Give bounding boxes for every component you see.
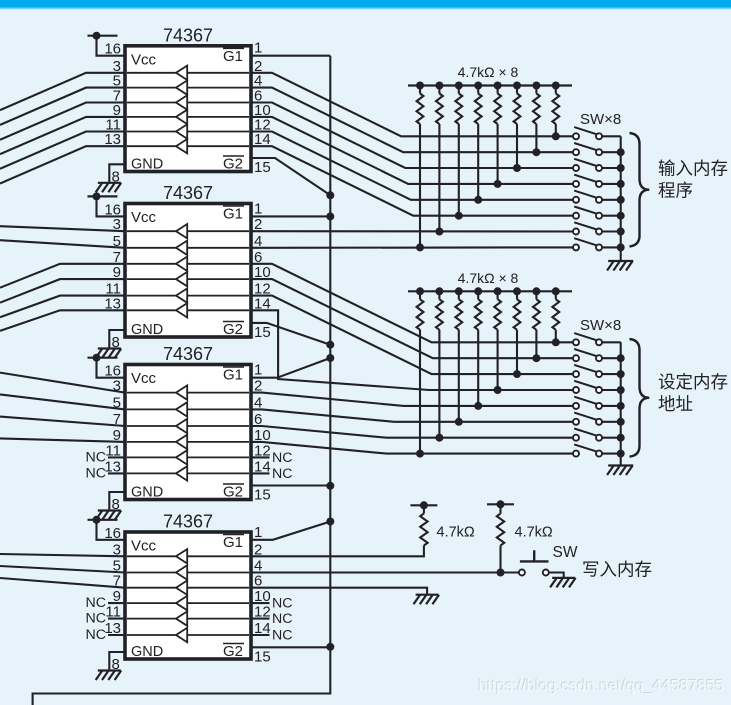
NC stub pin 14 [251,466,293,482]
buffer U2 channel 6 [127,303,249,317]
switch RN2 SW3 [573,365,602,377]
buffer U3 channel 5 [127,450,249,464]
wire resistor RN1-3 to switch row 6 [458,124,460,216]
wire switch 3 to ground bus [602,167,621,169]
junction node row 3 [513,164,521,172]
svg-text:1: 1 [254,40,262,57]
switch RN2 SW1 [573,333,602,345]
wires U2 outputs to address switches rows 1-3 [251,264,573,374]
svg-text:G2: G2 [223,643,243,660]
wire resistor RN2-1 to switch row 8 [419,330,421,454]
buffer U2 channel 1 [127,224,249,238]
svg-text:4.7kΩ × 8: 4.7kΩ × 8 [458,64,519,80]
svg-text:Vcc: Vcc [131,209,157,226]
svg-text:8: 8 [112,334,120,351]
junction node row 4 [494,180,502,188]
wire switch 1 to ground bus [602,341,621,343]
switch RN2 SW2 [573,349,602,361]
svg-text:SW: SW [553,544,578,561]
wire resistor RN2-8 to switch row 1 [555,330,557,343]
svg-text:74367: 74367 [163,25,213,45]
svg-text:NC: NC [272,611,293,627]
wire write switch to ground [549,573,564,578]
wire switch 4 to ground bus [602,183,621,185]
junction node row 8 [416,243,424,251]
resistor RN2-4 4.7kΩ [474,287,482,330]
resistor RN2-2 4.7kΩ [435,287,443,330]
svg-text:74367: 74367 [163,183,213,203]
Vcc power tick U4 [88,516,118,524]
junction node row 4 [494,386,502,394]
wire switch 5 to ground bus [602,405,621,407]
junction node row 7 [435,228,443,236]
svg-text:G2: G2 [223,484,243,501]
resistor RN1-4 4.7kΩ [474,82,482,125]
switch RN2 SW5 [573,397,602,409]
U1 pin 8 GND wire [109,164,125,182]
ground symbol U3 pin 8 [96,511,122,521]
buffer U1 channel 5 [127,124,249,138]
wire resistor RN1-4 to switch row 5 [477,124,479,200]
svg-text:GND: GND [131,322,163,338]
switch RN1 SW3 [573,159,602,171]
svg-text:写入内存: 写入内存 [582,560,652,580]
wire U4 pin15 G2 to enable bus [251,646,330,648]
U4 pin 16 Vcc wire [97,520,126,540]
buffer U4 channel 1 [127,549,249,563]
wire U2 pin1 G1 to enable bus [251,215,330,217]
U2 pin 8 GND wire [109,330,125,348]
svg-text:1: 1 [254,362,262,379]
junction node row 8 [416,450,424,458]
junction node row 6 [455,212,463,220]
NC stub pin 13 [86,465,126,481]
svg-text:https://blog.csdn.net/qq_44587: https://blog.csdn.net/qq_44587855 [478,678,724,695]
svg-text:NC: NC [272,450,293,466]
ground bus RN1 [620,136,622,261]
hex buffer U4 74367 [125,512,251,661]
svg-text:NC: NC [272,596,293,612]
buffer U2 channel 3 [127,257,249,271]
wire switch 2 to ground bus [602,357,621,359]
junction node ground bus row 4 [617,180,625,188]
junction node row 1 [552,132,560,140]
svg-text:Vcc: Vcc [131,51,157,68]
wire switch 7 to ground bus [602,230,621,232]
wire U3 pin15 G2 to enable bus [251,484,330,486]
wire resistor RN1-1 to switch row 8 [419,124,421,247]
svg-text:G1: G1 [223,206,243,223]
buffer U4 channel 4 [127,596,249,610]
resistor RN1-1 4.7kΩ [416,82,424,125]
junction node row 2 [532,354,540,362]
switch RN2 SW6 [573,413,602,425]
wire U2 pin4 to program switch row 8 [251,246,573,249]
wire switch 8 to ground bus [602,453,621,455]
U3 pin 16 Vcc wire [97,358,126,378]
enable bus vertical [33,56,331,705]
wires U4 inputs to left bus [0,554,125,588]
wire switch 4 to ground bus [602,389,621,391]
svg-text:G2: G2 [223,156,243,173]
junction node enable bus / U3 G1 [326,354,334,362]
NC stub pin 9 [86,595,126,611]
svg-text:15: 15 [254,324,271,341]
svg-text:15: 15 [254,159,271,176]
wire resistor RN2-6 to switch row 3 [516,330,518,374]
svg-text:NC: NC [272,628,293,644]
ground symbol U2 pin 8 [96,349,122,359]
wire U1 pin15 G2 to enable bus [251,158,330,195]
resistor RN2-8 4.7kΩ [552,287,560,330]
wire U4 pin4 to write switch [251,571,519,573]
junction node row 2 [532,148,540,156]
brace RN1 [630,133,650,246]
ground symbol RN1 [607,261,633,271]
hex buffer U2 74367 [125,183,251,338]
junction node R2 / write wire [497,569,505,577]
Vcc power tick U3 [88,354,118,362]
buffer U1 channel 1 [127,66,249,80]
U3 pin 8 GND wire [109,492,125,510]
svg-text:程序: 程序 [658,181,693,201]
wire resistor RN1-6 to switch row 3 [516,124,518,168]
Vcc power tick U2 [88,192,118,200]
switch RN1 SW2 [573,143,602,155]
svg-text:NC: NC [86,611,107,627]
resistor RN2-7 4.7kΩ [532,287,540,330]
wire U2 pin2 to program switch row 7 [251,230,573,232]
junction node ground bus row 6 [617,418,625,426]
svg-text:SW×8: SW×8 [580,317,621,334]
buffer U1 channel 2 [127,80,249,94]
U2 pin 16 Vcc wire [97,196,126,216]
ground bus RN2 [620,342,622,465]
junction node ground bus row 8 [617,243,625,251]
svg-text:74367: 74367 [163,512,213,532]
resistor R2 4.7kΩ pull-up [497,504,504,572]
switch RN2 SW4 [573,381,602,393]
svg-text:设定内存: 设定内存 [658,372,728,392]
wire switch 3 to ground bus [602,373,621,375]
switch RN1 SW1 [573,127,602,139]
wire switch 2 to ground bus [602,151,621,153]
svg-text:GND: GND [131,485,163,501]
buffer U3 channel 3 [127,419,249,433]
wire resistor RN1-2 to switch row 7 [438,124,440,232]
brace RN2 [630,339,650,457]
buffer U1 channel 3 [127,95,249,109]
wire switch 8 to ground bus [602,246,621,248]
buffer U4 channel 6 [127,628,249,642]
svg-text:8: 8 [112,496,120,513]
wires U3 outputs to address switches rows 5-8 [251,393,573,454]
junction node ground bus row 5 [617,402,625,410]
wire resistor RN2-7 to switch row 2 [535,330,537,358]
switch RN2 SW7 [573,429,602,441]
wires U2 inputs to left bus [0,226,125,331]
svg-text:4.7kΩ: 4.7kΩ [515,525,553,541]
Vcc power tick R1 [410,501,437,509]
buffer U4 channel 3 [127,581,249,595]
U1 pin 16 Vcc wire [97,36,126,56]
wire U4 pin6 to ground [251,588,427,595]
wire switch 7 to ground bus [602,437,621,439]
buffer U3 channel 6 [127,466,249,480]
wire resistor RN1-8 to switch row 1 [555,124,557,136]
switch RN1 SW6 [573,207,602,219]
svg-text:NC: NC [86,449,107,465]
junction node enable bus / U3 G2 [326,482,334,490]
U4 pin 8 GND wire [109,652,125,670]
svg-text:15: 15 [254,487,271,504]
NC stub pin 12 [251,611,293,627]
wire U3 pin1 G1 to enable bus [251,358,330,378]
svg-text:4.7kΩ: 4.7kΩ [437,525,475,541]
svg-text:G1: G1 [223,367,243,384]
svg-text:15: 15 [254,648,271,665]
junction node row 7 [435,434,443,442]
junction node ground bus row 2 [617,354,625,362]
wires U1 inputs to left bus [0,73,125,184]
svg-text:G1: G1 [223,534,243,551]
resistor RN1-6 4.7kΩ [513,82,521,125]
svg-text:G2: G2 [223,321,243,338]
resistor RN1-7 4.7kΩ [532,82,540,125]
svg-text:GND: GND [131,644,163,660]
svg-text:NC: NC [86,627,107,643]
NC stub pin 14 [251,628,293,644]
svg-text:74367: 74367 [163,344,213,364]
NC stub pin 11 [86,449,126,465]
wires U1 outputs to program switches [251,73,573,216]
wire switch 1 to ground bus [602,135,621,137]
svg-text:NC: NC [272,466,293,482]
wire resistor RN2-2 to switch row 7 [438,330,440,438]
wire resistor RN1-5 to switch row 4 [497,124,499,184]
svg-text:NC: NC [86,465,107,481]
NC stub pin 11 [86,611,126,627]
ground symbol U1 pin 8 [96,183,122,193]
junction node enable bus / U4 G2 [326,643,334,651]
buffer U4 channel 5 [127,611,249,625]
junction node ground bus row 6 [617,212,625,220]
buffer U2 channel 5 [127,288,249,302]
resistor RN2-1 4.7kΩ [416,287,424,330]
pushbutton SW write [519,550,549,575]
ground symbol RN2 [607,466,633,476]
junction node ground bus row 3 [617,164,625,172]
resistor RN1-3 4.7kΩ [455,82,463,125]
resistor RN2-3 4.7kΩ [455,287,463,330]
wire U4 pin1 G1 to enable bus [251,522,330,540]
wire resistor RN2-3 to switch row 6 [458,330,460,422]
junction node ground bus row 4 [617,386,625,394]
switch RN1 SW7 [573,222,602,234]
junction node ground bus row 5 [617,196,625,204]
switch RN2 SW8 [573,444,602,456]
hex buffer U1 74367 [125,25,251,172]
wire resistor RN2-5 to switch row 4 [497,330,499,390]
wire resistor RN2-4 to switch row 5 [477,330,479,406]
junction node ground bus row 3 [617,370,625,378]
ground symbol U4 pin6 [414,595,440,605]
svg-text:16: 16 [104,525,121,542]
svg-text:1: 1 [254,200,262,217]
buffer U3 channel 4 [127,435,249,449]
junction node ground bus row 8 [617,450,625,458]
resistor RN1-8 4.7kΩ [552,82,560,125]
junction node enable bus / U2 G1 [326,212,334,220]
pull-up rail RN1 [408,84,572,86]
svg-text:1: 1 [254,524,262,541]
Vcc power tick U1 [88,32,118,40]
resistor RN2-5 4.7kΩ [494,287,502,330]
wire switch 6 to ground bus [602,215,621,217]
svg-text:4.7kΩ × 8: 4.7kΩ × 8 [458,270,519,286]
buffer U2 channel 2 [127,241,249,255]
ground symbol write switch [550,578,576,588]
resistor RN1-5 4.7kΩ [494,82,502,125]
svg-text:Vcc: Vcc [131,538,157,555]
Vcc power tick R2 [487,500,514,508]
junction node ground bus row 7 [617,228,625,236]
svg-text:NC: NC [86,595,107,611]
buffer U1 channel 4 [127,110,249,124]
pull-up rail RN2 [408,290,572,292]
svg-text:SW×8: SW×8 [580,111,621,128]
svg-text:输入内存: 输入内存 [658,159,728,179]
junction node enable bus / U1 G2 [326,191,334,199]
junction node row 6 [455,418,463,426]
resistor R1 4.7kΩ pull-up [420,505,427,556]
hex buffer U3 74367 [125,344,251,501]
junction node row 3 [513,370,521,378]
junction node ground bus row 7 [617,434,625,442]
svg-text:8: 8 [112,656,120,673]
buffer U3 channel 2 [127,402,249,416]
junction node row 1 [552,338,560,346]
wire switch 5 to ground bus [602,199,621,201]
svg-text:地址: 地址 [658,394,693,414]
ground symbol U4 pin 8 [96,671,122,681]
NC stub pin 10 [251,596,293,612]
svg-text:Vcc: Vcc [131,370,157,387]
NC stub pin 13 [86,627,126,643]
switch RN1 SW8 [573,238,602,250]
NC stub pin 12 [251,450,293,466]
wire resistor RN1-7 to switch row 2 [535,124,537,152]
junction node row 5 [474,196,482,204]
junction node ground bus row 2 [617,148,625,156]
wire U1 pin1 G1 to enable bus [251,55,330,57]
svg-text:GND: GND [131,157,163,173]
junction node enable bus / U4 G1 [326,518,334,526]
buffer U1 channel 6 [127,139,249,153]
wires U3 inputs to left bus [0,373,125,442]
wire U2 pin14 to address switch row 4 [251,310,573,390]
wire U2 pin15 G2 to enable bus [251,323,330,345]
switch RN1 SW5 [573,191,602,203]
wire U4 pin2 to pull-up R1 [251,555,424,557]
resistor RN1-2 4.7kΩ [435,82,443,125]
switch RN1 SW4 [573,175,602,187]
buffer U4 channel 2 [127,565,249,579]
buffer U3 channel 1 [127,385,249,399]
junction node enable bus / U2 G2 [326,341,334,349]
resistor RN2-6 4.7kΩ [513,287,521,330]
wire switch 6 to ground bus [602,421,621,423]
junction node row 5 [474,402,482,410]
buffer U2 channel 4 [127,272,249,286]
svg-text:8: 8 [112,168,120,185]
svg-text:G1: G1 [223,48,243,65]
svg-text:16: 16 [104,41,121,58]
